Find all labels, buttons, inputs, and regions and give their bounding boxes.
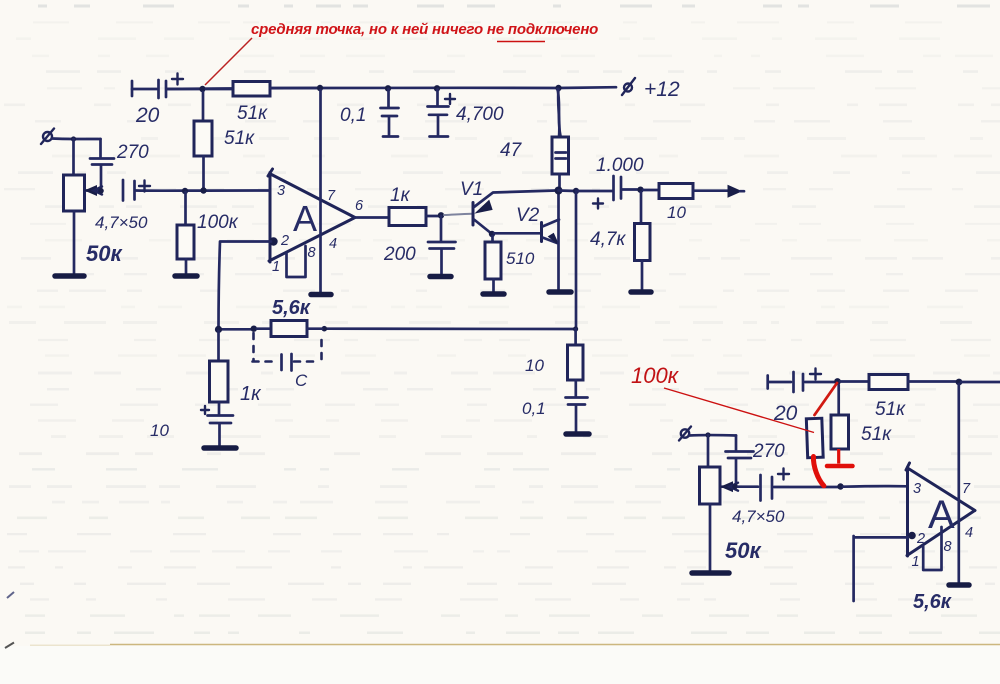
ground V2 emitter [549, 289, 571, 295]
ground 200 [430, 274, 451, 280]
op-amp A1 [268, 90, 364, 293]
resistor 4,7k [590, 192, 650, 290]
node output cap / 4,7k [637, 187, 643, 193]
wire feedback from output [575, 192, 578, 329]
ground 1k/10 branch [204, 445, 236, 451]
svg-text:270: 270 [752, 441, 785, 462]
capacitor 270 (copy) [726, 436, 786, 487]
wire input node [71, 136, 101, 141]
red ground 51k (copy) [827, 449, 853, 466]
resistor 1k output op-amp [355, 185, 441, 226]
resistor 51k vertical (copy) [831, 385, 892, 449]
svg-text:2: 2 [280, 233, 289, 249]
capacitor 1.000 output [576, 155, 644, 209]
node 1k/200 [438, 212, 472, 218]
resistor 1k feedback lower [210, 331, 263, 405]
svg-text:3: 3 [913, 481, 921, 497]
wire +12 rail [167, 87, 616, 89]
resistor 100k misdrawn (copy) [806, 418, 823, 458]
svg-text:4: 4 [329, 236, 337, 252]
ground 4,7k [631, 289, 651, 295]
resistor 5,6k feedback [257, 297, 322, 337]
svg-text:51к: 51к [875, 399, 906, 420]
input jack [41, 129, 73, 145]
wire non-inverting input [136, 187, 270, 194]
svg-text:100к: 100к [631, 363, 680, 388]
ground zobel [566, 431, 589, 437]
svg-text:10: 10 [150, 421, 169, 440]
resistor 10 output [643, 184, 729, 223]
svg-text:7: 7 [327, 188, 336, 204]
transistor V1 [460, 179, 556, 234]
resistor 510 [485, 236, 535, 292]
svg-text:4: 4 [965, 525, 973, 541]
red label 100k [631, 363, 814, 433]
resistor 5,6k label (copy) [913, 591, 952, 613]
wire V2 emitter to ground [555, 187, 563, 291]
red pointer line [205, 38, 252, 85]
svg-text:С: С [295, 371, 308, 390]
svg-text:51к: 51к [861, 424, 892, 445]
svg-text:1: 1 [912, 554, 920, 570]
capacitor 10 electrolytic feedback [150, 402, 233, 445]
svg-text:4,7к: 4,7к [590, 229, 626, 250]
svg-text:А: А [928, 493, 955, 537]
power terminal +12 [622, 78, 680, 101]
ground op-amp (copy) [949, 582, 969, 588]
red correction wire bottom [813, 457, 823, 486]
resistor 51k horizontal (copy) [840, 375, 957, 421]
node rail (copy) [956, 379, 1000, 386]
ground 100k [175, 273, 197, 279]
output arrow [728, 186, 744, 198]
resistor 51k vertical [194, 92, 255, 188]
svg-text:510: 510 [506, 249, 535, 268]
node 270 wiper (copy) [732, 484, 738, 490]
svg-text:6: 6 [355, 198, 364, 214]
red correction wire top [815, 383, 838, 415]
node divider (copy) [834, 378, 841, 385]
svg-text:20: 20 [135, 104, 160, 127]
svg-text:4,7×50: 4,7×50 [732, 507, 785, 526]
svg-text:7: 7 [962, 481, 971, 497]
paper bottom edge [5, 643, 1000, 649]
stray ink mark left edge [7, 592, 14, 598]
svg-text:V2: V2 [516, 205, 540, 226]
node V1 emitter / V2 base [489, 231, 541, 237]
capacitor 0,1 bypass [340, 85, 399, 136]
capacitor C 20uF [132, 74, 202, 128]
svg-text:51к: 51к [237, 103, 268, 124]
wire inverting input to feedback [219, 242, 272, 330]
svg-text:10: 10 [667, 203, 686, 222]
svg-text:5,6к: 5,6к [913, 591, 952, 613]
svg-text:8: 8 [308, 245, 316, 261]
wire feedback horizontal [215, 326, 578, 334]
svg-text:50к: 50к [86, 241, 123, 266]
svg-text:51к: 51к [224, 128, 255, 149]
svg-text:5,6к: 5,6к [272, 297, 311, 319]
svg-text:V1: V1 [460, 179, 483, 200]
capacitor 20 (copy) [768, 369, 834, 426]
resistor 10 zobel [525, 329, 583, 396]
svg-text:47: 47 [500, 140, 523, 161]
resistor 51k horizontal [206, 82, 317, 125]
resistor 100k bias [177, 192, 239, 273]
ground op-amp pin 4 [311, 292, 331, 298]
capacitor 4,7x50 (copy) [732, 469, 838, 527]
red annotation text [251, 21, 598, 42]
svg-text:8: 8 [944, 539, 952, 555]
svg-text:2: 2 [916, 531, 925, 547]
potentiometer 50k [64, 139, 124, 273]
capacitor C dashed [253, 333, 322, 390]
capacitor 4,700 electrolytic [428, 85, 504, 136]
ground potentiometer (copy) [692, 570, 729, 576]
svg-text:1к: 1к [390, 185, 411, 206]
svg-text:10: 10 [525, 356, 544, 375]
svg-text:0,1: 0,1 [522, 399, 546, 418]
svg-text:4,7×50: 4,7×50 [95, 213, 148, 232]
svg-text:100к: 100к [197, 212, 239, 233]
resistor 47 collector load [500, 85, 569, 188]
input jack (copy) [679, 427, 736, 441]
wire output node [559, 188, 580, 194]
node 270/pot wiper [98, 188, 104, 194]
svg-text:0,1: 0,1 [340, 105, 366, 126]
svg-text:50к: 50к [725, 538, 762, 563]
svg-text:1.000: 1.000 [596, 155, 644, 176]
wire signal to op-amp (copy) [837, 483, 907, 489]
capacitor 200 [383, 216, 456, 275]
node rail/op-amp supply [317, 85, 323, 91]
svg-text:А: А [293, 198, 317, 239]
node midpoint (средняя точка) [199, 86, 205, 92]
capacitor 270 input [90, 139, 149, 189]
svg-text:+12: +12 [644, 78, 680, 101]
ground 510 [483, 291, 504, 297]
svg-text:3: 3 [277, 183, 285, 199]
wire inverting input (copy) [854, 536, 908, 601]
capacitor 4,7x50 electrolytic [95, 180, 150, 232]
op-amp A1 (copy) [906, 384, 975, 582]
potentiometer 50k (copy) [700, 435, 763, 570]
transistor V2 [516, 205, 559, 245]
svg-text:1к: 1к [240, 383, 262, 405]
svg-text:270: 270 [116, 142, 149, 163]
capacitor 0,1 zobel [522, 398, 588, 432]
svg-text:200: 200 [383, 244, 416, 265]
svg-text:средняя точка, но к ней ничего: средняя точка, но к ней ничего не подклю… [251, 21, 598, 38]
svg-text:4,700: 4,700 [456, 104, 504, 125]
svg-text:1: 1 [272, 259, 280, 275]
ground potentiometer [55, 273, 84, 279]
